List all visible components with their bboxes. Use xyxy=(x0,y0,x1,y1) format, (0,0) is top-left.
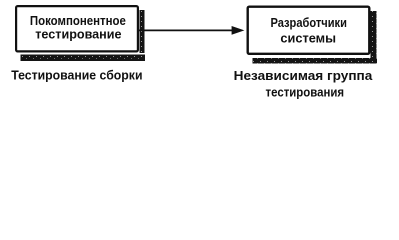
wire: arrow shaft from B1 to B2 xyxy=(138,29,233,31)
arrowhead xyxy=(232,26,245,35)
svg-text:Разработчики: Разработчики xyxy=(271,15,347,30)
box B2 shadow (right band) xyxy=(371,11,377,63)
box B1: Покомпонентное тестирование xyxy=(16,6,138,51)
box B1 shadow (right band) xyxy=(140,10,145,53)
svg-text:тестирование: тестирование xyxy=(35,26,121,41)
box B2 shadow (bottom band) xyxy=(253,58,378,64)
svg-text:системы: системы xyxy=(280,31,336,46)
svg-text:Тестирование сборки: Тестирование сборки xyxy=(11,67,142,82)
box B2: Разработчики системы xyxy=(248,7,370,54)
svg-text:Независимая группа: Независимая группа xyxy=(234,68,373,83)
box B1 shadow (bottom band) xyxy=(21,55,146,62)
svg-text:тестирования: тестирования xyxy=(266,84,345,99)
